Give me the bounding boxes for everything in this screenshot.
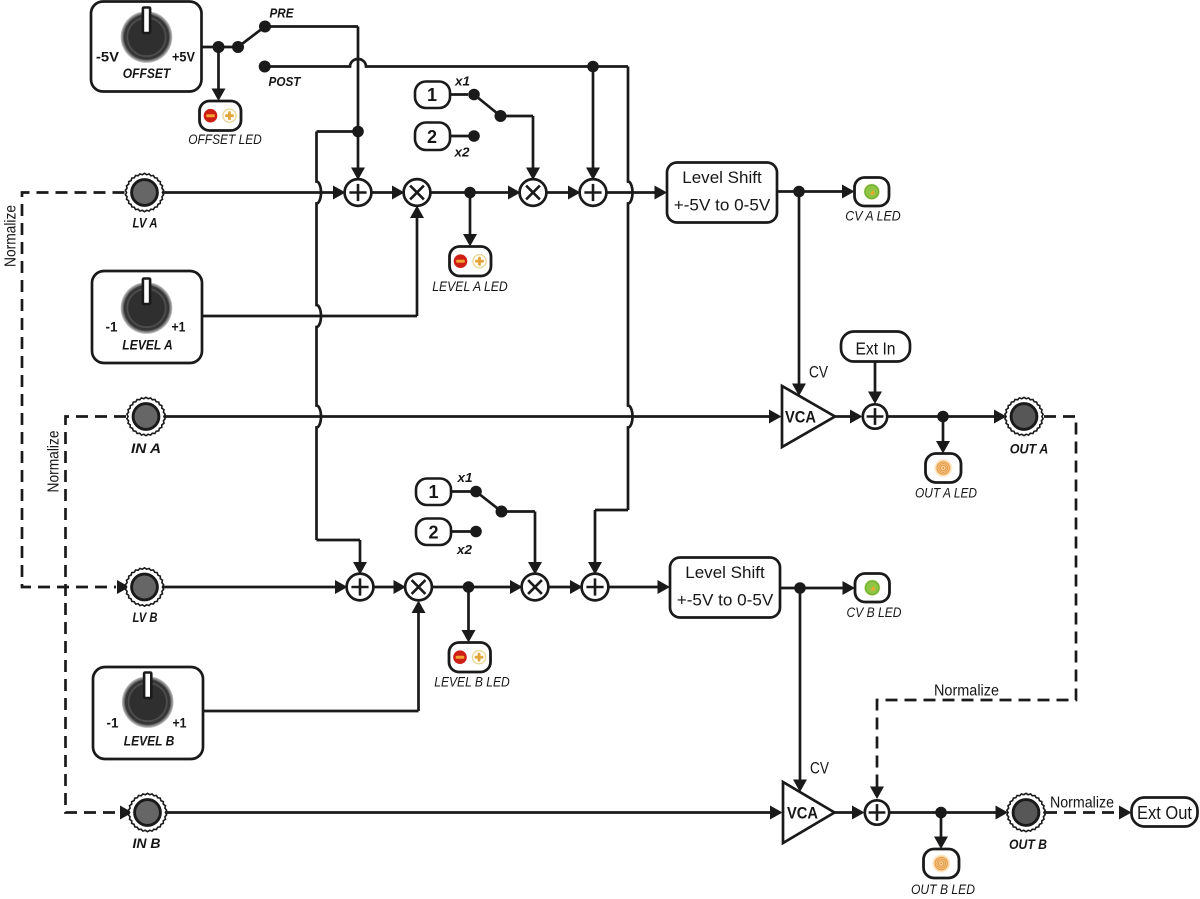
switch block 1 (A) [415,82,450,109]
svg-text:LV B: LV B [133,609,158,625]
svg-text:x2: x2 [453,146,469,160]
svg-text:x1: x1 [456,471,472,485]
svg-text:VCA: VCA [787,804,818,823]
knob block LEVEL A [92,271,202,363]
junction OUT A LED [937,411,949,423]
wire 1-contact (A) [450,93,468,96]
jack OUT B [1007,793,1045,831]
wire level shift A out [777,190,846,193]
svg-text:LEVEL B LED: LEVEL B LED [434,675,510,690]
wire PRE to sum A1 [265,25,358,28]
amplifier VCA A [782,386,835,447]
svg-text:Level Shift: Level Shift [682,168,762,187]
junction level A LED [464,187,476,199]
wire mult B1 to mult B2 [431,586,514,589]
svg-text:-1: -1 [107,716,119,731]
svg-text:Normalize: Normalize [46,431,63,493]
svg-text:Normalize: Normalize [3,205,20,267]
jack LV B [125,568,163,606]
indicator LEVEL A LED [450,247,492,277]
wire offset to OFFSET LED [217,47,220,93]
wire POST line [265,59,628,67]
node POST contact [259,61,271,73]
svg-text:OUT A: OUT A [1010,441,1049,457]
wire OUT B to Ext Out (dashed) [1045,811,1120,814]
svg-text:IN B: IN B [133,835,161,851]
wire sum B2 to level shift B [608,586,662,589]
svg-text:LEVEL B: LEVEL B [124,733,175,749]
block Level Shift B [670,558,780,618]
svg-text:PRE: PRE [270,6,294,21]
junction CV B [794,582,806,594]
switch block 1 (B) [416,479,451,506]
multiplier node B2 [522,574,549,601]
svg-text:Normalize: Normalize [1050,795,1114,812]
svg-text:OFFSET: OFFSET [123,65,172,81]
wire LEVEL A to mult A1 [202,315,417,318]
wire mult A2 to sum A2 [546,191,573,194]
svg-text:IN A: IN A [131,440,161,456]
wire normalize IN A to IN B (dashed) [66,417,127,813]
multiplier node A1 [404,179,431,206]
svg-text:POST: POST [269,74,302,89]
node x1 contact (A) [468,89,480,101]
wire to LEVEL B LED [467,587,470,635]
svg-text:-1: -1 [106,320,118,335]
svg-text:x2: x2 [456,543,472,557]
wire pole to mult B2 [502,510,536,513]
svg-text:2: 2 [428,523,438,543]
summing node A1 [345,179,372,206]
knob block LEVEL B [93,667,203,759]
wire switch arm to PRE [238,27,265,48]
switch block 2 (B) [416,519,451,546]
svg-text:x1: x1 [454,75,470,89]
svg-text:LEVEL A: LEVEL A [122,337,173,353]
wire LV A to sum A1 [163,191,336,194]
svg-text:CV A LED: CV A LED [845,209,901,224]
wire PRE branch left [317,130,359,133]
block Ext Out [1132,798,1198,827]
wire POST branch down to sum B2 [628,67,633,511]
svg-text:OFFSET LED: OFFSET LED [188,132,262,147]
switch block 2 (A) [415,123,450,151]
node switch pole (A) [495,110,507,122]
wire to OUT B LED [940,813,943,842]
wire IN A to VCA A [165,415,774,418]
wire VCA A to sum A3 [835,415,854,418]
svg-text:OUT B LED: OUT B LED [911,882,975,897]
summing node A2 [580,179,607,206]
summing node B2 [582,574,609,601]
node x2 contact (A) [468,130,480,142]
wire mult B2 to sum B2 [548,586,575,589]
wire mult A1 to mult A2 [430,191,513,194]
svg-text:+5V: +5V [172,50,195,65]
svg-text:+1: +1 [173,716,187,731]
svg-text:OUT B: OUT B [1009,836,1047,852]
indicator LEVEL B LED [449,643,491,673]
wire pole to mult A2 [501,115,534,118]
wire POST drop into sum A2 [592,67,595,173]
svg-text:Ext Out: Ext Out [1137,803,1192,823]
label Normalize (LV) [3,205,20,267]
wire normalize LV A to LV B (dashed) [22,193,125,588]
svg-text:Ext In: Ext In [856,339,896,359]
indicator OUT B LED [924,849,960,878]
indicator CV B LED [855,574,890,603]
node x2 contact (B) [470,526,482,538]
junction POST-A [587,61,599,73]
svg-text:Normalize: Normalize [934,683,999,700]
wire switch arm (B) [476,492,502,512]
wire sum B3 to OUT B [890,811,1000,814]
wire switch arm (A) [474,95,501,117]
svg-text:VCA: VCA [785,408,816,427]
wire IN B to VCA B [167,811,775,814]
wire sum A3 to OUT A [888,415,999,418]
summing node A3 [863,404,887,428]
node switch pole (B) [496,506,508,518]
svg-text:+-5V to 0-5V: +-5V to 0-5V [674,196,771,215]
summing node B3 [865,800,889,824]
jack OUT A [1005,397,1043,435]
wire LEVEL B to mult B1 [203,710,419,713]
junction level B LED [463,581,475,593]
node switch pole [232,41,244,53]
svg-text:-5V: -5V [96,50,119,65]
multiplier node B1 [405,574,432,601]
indicator OFFSET LED [200,101,242,131]
indicator OUT A LED [926,454,962,483]
amplifier VCA B [783,782,835,843]
wire 2-contact (A) [450,135,469,138]
wire Ext In to sum A3 [874,362,877,397]
junction CV A [793,186,805,198]
svg-text:1: 1 [428,482,438,502]
svg-text:1: 1 [427,85,437,105]
junction OUT B LED [935,807,947,819]
wire 1-contact (B) [451,490,471,493]
knob block OFFSET [91,2,202,92]
block Level Shift A [667,163,777,223]
wire sum A1 to mult A1 [371,191,397,194]
junction PRE branch [352,126,364,138]
svg-text:OUT A LED: OUT A LED [915,486,977,501]
wire CV A to VCA A [798,192,801,389]
svg-text:LEVEL A LED: LEVEL A LED [432,279,508,294]
summing node B1 [347,574,374,601]
junction offset-LED [213,41,225,53]
wire sum A2 to level shift A [606,191,659,194]
svg-text:Level Shift: Level Shift [685,563,765,582]
jack LV A [125,173,163,211]
svg-text:+1: +1 [172,320,186,335]
multiplier node A2 [520,179,547,206]
block Ext In [841,332,910,362]
wire normalize OUT A to sum B3 (dashed) [877,417,1076,789]
wire level shift B out [780,587,847,590]
wire to LEVEL A LED [469,193,472,240]
wire offset output [202,46,239,49]
wire 2-contact (B) [451,530,471,533]
svg-text:+-5V to 0-5V: +-5V to 0-5V [677,591,774,610]
wire PRE drop into sum A1 [357,132,360,173]
node PRE contact [259,21,271,33]
svg-text:LV A: LV A [133,215,158,231]
wire PRE branch down to sum B1 [317,132,322,541]
jack IN B [128,793,166,831]
svg-text:CV: CV [810,760,829,778]
wire VCA B to sum B3 [835,811,857,814]
node x1 contact (B) [470,486,482,498]
indicator CV A LED [855,178,890,207]
wire LV B to sum B1 [163,586,339,589]
svg-text:CV B LED: CV B LED [847,605,902,620]
wire CV B to VCA B [799,588,802,784]
wire to OUT A LED [942,417,945,447]
svg-text:CV: CV [809,364,828,382]
jack IN A [127,397,165,435]
svg-text:2: 2 [427,127,437,147]
label Normalize (IN) [46,431,63,493]
wire sum B1 to mult B1 [373,586,398,589]
